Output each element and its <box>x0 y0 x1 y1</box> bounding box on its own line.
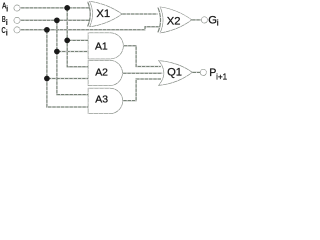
svg-text:A1: A1 <box>95 42 108 53</box>
junction dot A branch to A1 <box>64 38 70 44</box>
svg-text:A2: A2 <box>95 67 108 78</box>
svg-text:i: i <box>6 28 8 38</box>
junction dot B branch to A1 <box>54 49 60 55</box>
svg-text:A3: A3 <box>95 95 108 106</box>
svg-text:Q1: Q1 <box>167 67 182 79</box>
svg-text:Pi+1: Pi+1 <box>209 67 227 81</box>
svg-text:Gi: Gi <box>208 14 219 27</box>
svg-text:i: i <box>6 17 8 27</box>
junction dot A row <box>64 5 70 11</box>
junction dot C branch to A2 <box>44 76 50 82</box>
svg-text:X2: X2 <box>167 16 181 28</box>
junction dot B row <box>54 17 60 23</box>
svg-text:X1: X1 <box>96 8 110 20</box>
junction dot C row <box>44 27 50 33</box>
svg-text:i: i <box>6 3 8 13</box>
